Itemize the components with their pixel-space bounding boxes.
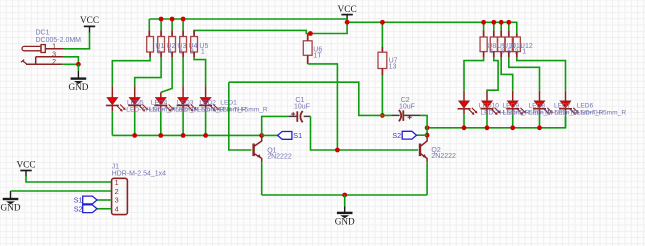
svg-text:2N2222: 2N2222	[431, 153, 456, 160]
wire U4 to LED straight	[182, 57, 184, 86]
wire U5/U6 feed	[194, 22, 347, 33]
resistor U8	[480, 37, 487, 52]
power flag VCC (DC jack)	[80, 16, 99, 26]
svg-text:VCC: VCC	[16, 161, 35, 171]
pin bottom of U9	[493, 52, 495, 58]
GND stem (bottom center)	[344, 207, 346, 213]
wire U7 bottom	[381, 76, 383, 116]
capacitor C2 plates	[402, 110, 404, 121]
svg-text:2: 2	[115, 187, 119, 196]
wire VCC to J1 pin1	[26, 176, 112, 182]
svg-text:S1: S1	[293, 131, 302, 140]
GND stem (DC jack)	[77, 71, 79, 79]
pin top of U9	[493, 30, 495, 37]
LED LED10	[458, 91, 478, 128]
GND stem (J1)	[10, 191, 12, 199]
svg-text:GND: GND	[1, 203, 21, 213]
wire C2 right elbow	[421, 115, 428, 136]
pin bottom of U5	[193, 52, 195, 57]
pin top of U6	[307, 34, 309, 41]
pin bottom of U7	[381, 69, 383, 76]
wire U6 bottom elbow	[308, 64, 338, 150]
wire VCC rail right (to U8-U12)	[347, 22, 517, 33]
resistor U1	[147, 37, 154, 53]
svg-text:2: 2	[52, 59, 56, 66]
svg-text:10uF: 10uF	[294, 103, 310, 110]
ground GND (DC jack)	[68, 79, 88, 93]
pin top of U1	[148, 30, 150, 36]
capacitor C1 plates	[296, 111, 298, 122]
connector DC1 barrel jack symbol	[21, 45, 64, 65]
svg-text:S2: S2	[392, 131, 401, 140]
net label S2 (mid)	[392, 131, 416, 140]
pin bottom of U6	[307, 55, 309, 64]
pin top of U4	[182, 30, 184, 36]
LED LED7	[533, 91, 553, 128]
svg-text:1: 1	[52, 43, 56, 50]
svg-text:J1: J1	[112, 163, 120, 170]
svg-text:3: 3	[115, 196, 119, 205]
junction right rail at x539.5	[537, 125, 542, 130]
ground GND (J1)	[1, 199, 21, 213]
resistor U5	[191, 37, 198, 53]
junction right rail at x464.0	[462, 125, 467, 130]
resistor U6	[303, 41, 312, 56]
junction ground rail	[342, 193, 347, 198]
svg-text:2N2222: 2N2222	[267, 154, 292, 161]
wire U9 to LED (x487)	[487, 57, 498, 91]
power flag VCC (J1)	[16, 161, 35, 171]
wire U8 top stub	[483, 22, 485, 30]
wire U10 to LED (x512.7)	[501, 57, 513, 91]
svg-text:LED-TH-5mm_R: LED-TH-5mm_R	[577, 110, 626, 117]
wire C1 right to Q2 base	[311, 116, 419, 150]
junction U6 bottom / Q2 base node	[335, 148, 340, 153]
transistor Q2	[420, 136, 427, 163]
junction U7 bottom / C2 left node	[380, 113, 385, 118]
resistor U10	[498, 37, 505, 52]
svg-text:S1: S1	[74, 196, 83, 205]
junction left rail at x160.8	[158, 133, 163, 138]
net label S1 (mid)	[278, 131, 302, 140]
junction node S2 flag	[425, 133, 430, 138]
pin top of U2	[160, 30, 162, 36]
wire J1 pin3 stub	[97, 199, 112, 201]
junction left rail at x205.6	[203, 133, 208, 138]
wire U10 top stub	[500, 22, 502, 30]
LED LED1	[199, 86, 219, 135]
wire left LED cathode rail	[112, 134, 261, 136]
capacitor C1 leads	[288, 115, 310, 117]
junction VCC rail at U9	[491, 20, 496, 25]
wire GND to J1 pin2	[11, 190, 112, 192]
junction left rail at x183.1	[181, 133, 186, 138]
LED LED5	[106, 86, 126, 135]
wire ground stub	[77, 64, 79, 70]
power flag VCC (top center)	[338, 5, 357, 15]
capacitor C2 leads	[391, 114, 420, 116]
wire U4 top stub	[182, 19, 184, 30]
wire Q1 base vertical	[229, 82, 252, 150]
wire ground stem	[344, 195, 346, 207]
resistor U11	[505, 37, 512, 52]
svg-text:4: 4	[489, 48, 493, 55]
net label S1 (J1)	[74, 196, 97, 205]
VCC stem (top center)	[346, 15, 348, 22]
transistor Q1	[254, 136, 262, 163]
junction VCC rail at U8	[481, 20, 486, 25]
LED LED8	[506, 91, 526, 128]
junction right rail at x487.0	[485, 125, 490, 130]
LED LED9	[481, 91, 501, 128]
svg-text:LED-TH-5mm_R: LED-TH-5mm_R	[219, 106, 268, 113]
wire Q1 emitter down	[261, 162, 263, 195]
svg-text:GND: GND	[335, 216, 355, 226]
wire S1 node to C1	[262, 116, 289, 135]
wire U5 to LED (x205.6)	[194, 57, 206, 86]
resistor U12	[513, 37, 520, 52]
pin bottom of U11	[508, 52, 510, 58]
junction U6 top	[308, 31, 313, 36]
pin top of U5	[193, 30, 195, 36]
pin bottom of U8	[483, 52, 485, 58]
LED LED3	[154, 92, 174, 135]
pin top of U10	[500, 30, 502, 37]
pin bottom of U1	[149, 52, 151, 57]
svg-text:DC005-2.0MM: DC005-2.0MM	[36, 37, 82, 44]
wire U2 to LED (x134.7)	[135, 57, 161, 86]
wire U11 to LED (x539.5)	[509, 57, 540, 91]
wire VCC to U7	[381, 22, 383, 47]
wire U2 top stub	[160, 19, 162, 30]
svg-text:4: 4	[115, 204, 119, 213]
svg-text:VCC: VCC	[338, 5, 357, 15]
resistor U7	[378, 52, 387, 68]
svg-text:1: 1	[115, 178, 119, 187]
wire U1 top stub	[148, 19, 150, 30]
pin bottom of U12	[516, 52, 518, 58]
VCC stem (DC jack)	[89, 26, 91, 32]
pin top of U11	[508, 30, 510, 37]
junction right rail at x512.7	[510, 125, 515, 130]
pin top of U12	[516, 33, 518, 37]
svg-text:10uF: 10uF	[399, 103, 415, 110]
resistor U2	[158, 37, 165, 53]
junction right rail left end	[425, 125, 430, 130]
pin top of U8	[483, 30, 485, 37]
junction node S1	[259, 133, 264, 138]
resistor U4	[180, 37, 187, 53]
wire U12 to LED (x565.5)	[517, 57, 566, 91]
wire U11 top stub	[508, 22, 510, 30]
svg-text:13: 13	[389, 63, 397, 70]
wire right LED cathode rail	[427, 117, 565, 128]
svg-text:DC1: DC1	[36, 30, 50, 37]
pin bottom of U2	[160, 52, 162, 57]
svg-text:3: 3	[52, 51, 56, 58]
wire J1 pin4 stub	[97, 208, 112, 210]
pin bottom of U10	[500, 52, 502, 58]
wire U8 to LED (x464)	[464, 57, 484, 91]
junction VCC rail at U3	[170, 17, 175, 22]
wire S2 flag stub	[417, 134, 428, 136]
junction VCC rail at U11	[506, 20, 511, 25]
svg-text:S2: S2	[74, 204, 83, 213]
wire VCC rail left (to U1-U4)	[149, 19, 347, 22]
wire emitter ground rail	[262, 194, 427, 196]
svg-text:GND: GND	[68, 82, 88, 92]
wire U3 to LED diagonal	[161, 57, 172, 92]
pin bottom of U3	[171, 52, 173, 57]
wire S1 flag stub	[262, 134, 278, 136]
wire U3 top stub	[171, 19, 173, 30]
junction VCC rail at U4	[181, 17, 186, 22]
capacitor C2 plus sign	[408, 115, 412, 119]
wire Q2 emitter down	[426, 162, 428, 195]
LED LED6	[559, 91, 579, 128]
wire DC1 pin1 to VCC	[64, 33, 90, 49]
resistor U3	[169, 37, 176, 53]
junction VCC rail at U10	[499, 20, 504, 25]
pin bottom of U4	[182, 52, 184, 57]
junction VCC rail at U2	[159, 17, 164, 22]
svg-text:1: 1	[522, 48, 526, 55]
capacitor C1 plus sign	[291, 112, 295, 116]
pin top of U3	[171, 30, 173, 36]
wire Q1 base feed horizontal	[229, 82, 391, 115]
ground GND (bottom center)	[335, 213, 355, 227]
VCC stem (J1)	[25, 171, 27, 177]
connector J1 body	[112, 178, 128, 214]
svg-text:HDR-M-2.54_1x4: HDR-M-2.54_1x4	[112, 171, 167, 178]
wire U9 top stub	[493, 22, 495, 30]
junction DC1 ground node	[76, 62, 81, 67]
wire U1 to LED (x112)	[112, 57, 150, 86]
junction left rail at x134.7	[132, 133, 137, 138]
LED LED4	[128, 86, 148, 135]
junction VCC	[345, 20, 350, 25]
junction VCC rail at U7	[380, 20, 385, 25]
resistor U9	[490, 37, 497, 52]
LED LED2	[177, 86, 197, 135]
svg-text:1: 1	[201, 49, 205, 56]
wire DC1 pin3 elbow	[63, 57, 78, 65]
wire DC1 pin2 to ground node	[62, 63, 78, 65]
net label S2 (J1)	[74, 204, 97, 213]
pin top of U7	[381, 47, 383, 52]
svg-text:VCC: VCC	[80, 16, 99, 26]
svg-text:1T: 1T	[313, 53, 322, 60]
